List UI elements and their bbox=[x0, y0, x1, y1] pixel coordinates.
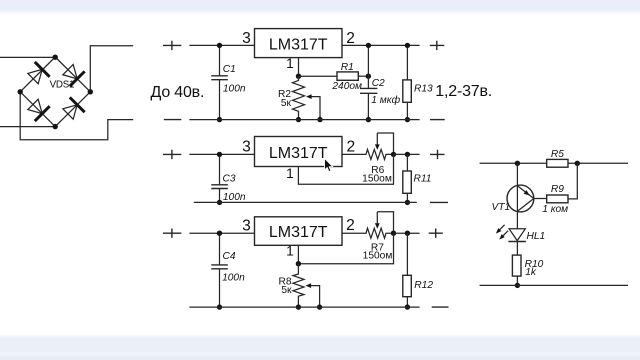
svg-text:3: 3 bbox=[242, 139, 251, 156]
minus terminal right 1 bbox=[430, 119, 445, 121]
plus terminal right 1 bbox=[430, 41, 445, 50]
node R12 top bbox=[405, 231, 410, 236]
svg-text:R1: R1 bbox=[341, 62, 354, 73]
wire bridge minus output bbox=[20, 92, 133, 140]
wire top rail right circuit bbox=[480, 162, 628, 164]
svg-text:VDS1: VDS1 bbox=[50, 80, 75, 91]
node R8 wiper bottom bbox=[317, 304, 322, 309]
svg-text:LM317T: LM317T bbox=[269, 224, 328, 241]
svg-text:LM317T: LM317T bbox=[269, 145, 328, 162]
wire pin1 circuit 3 bbox=[298, 233, 393, 264]
svg-text:R5: R5 bbox=[551, 149, 564, 160]
svg-text:LM317T: LM317T bbox=[269, 37, 328, 54]
wire top rail 3 left bbox=[189, 232, 254, 234]
wire pin1 to R1 bbox=[299, 75, 338, 77]
wire pin1 down circuit 1 bbox=[298, 58, 300, 77]
node R8 bottom bbox=[296, 304, 301, 309]
svg-text:R11: R11 bbox=[414, 174, 432, 185]
wire bridge edge left-top bbox=[20, 57, 55, 92]
wire bridge plus output bbox=[90, 46, 133, 92]
svg-text:C2: C2 bbox=[372, 78, 385, 89]
node C1 bottom bbox=[217, 117, 222, 122]
svg-text:VT1: VT1 bbox=[492, 202, 511, 213]
LED light arrow 2 bbox=[502, 231, 508, 237]
wire bottom rail 2 bbox=[194, 201, 417, 203]
svg-text:2: 2 bbox=[346, 217, 355, 234]
node C3 top bbox=[217, 152, 222, 157]
node bridge top bbox=[53, 55, 58, 60]
mouse cursor bbox=[325, 158, 333, 171]
svg-text:1 мкф: 1 мкф bbox=[371, 94, 400, 106]
svg-text:240ом: 240ом bbox=[331, 81, 362, 92]
node bridge left bbox=[18, 89, 23, 94]
svg-text:C3: C3 bbox=[223, 174, 236, 185]
svg-text:HL1: HL1 bbox=[527, 231, 546, 242]
diode VDS1.4 lower-right bbox=[61, 97, 85, 121]
wiper arrow R7 with frame bbox=[377, 212, 393, 234]
wiper arrow R8 bbox=[310, 286, 320, 308]
LED light arrow 1 bbox=[499, 225, 505, 231]
node pin1 circuit 3 bbox=[296, 261, 301, 266]
wire bottom rail 3 bbox=[189, 306, 419, 308]
node R13 top bbox=[405, 43, 410, 48]
node R7 out bbox=[391, 231, 396, 236]
plus terminal right 2 bbox=[430, 150, 445, 159]
LED HL1 cathode bar bbox=[508, 241, 526, 243]
node R11 bottom bbox=[405, 200, 410, 205]
wire base R9 bbox=[534, 198, 547, 200]
resistor R10 bbox=[512, 255, 521, 276]
node C1 top bbox=[217, 43, 222, 48]
svg-text:150ом: 150ом bbox=[362, 173, 392, 184]
svg-text:2: 2 bbox=[346, 30, 355, 47]
resistor R5 bbox=[547, 159, 568, 167]
transistor Q1 VT1 bbox=[507, 185, 534, 212]
svg-text:5к: 5к bbox=[281, 285, 292, 296]
capacitor C4 leads bbox=[219, 233, 221, 307]
bottom toolbar band bbox=[0, 334, 640, 360]
svg-text:1: 1 bbox=[286, 56, 294, 71]
transistor VT1 internals bbox=[517, 186, 533, 211]
plus terminal right 3 bbox=[429, 229, 443, 238]
wire R1 to node bbox=[358, 75, 368, 77]
plus terminal left 3 bbox=[163, 229, 181, 238]
minus terminal left 1 bbox=[164, 119, 182, 121]
plus terminal left 1 bbox=[163, 41, 181, 50]
top title bar bbox=[0, 0, 640, 15]
svg-text:1: 1 bbox=[286, 244, 294, 259]
diode VDS1.3 lower-left bbox=[26, 97, 50, 121]
wire R7 node to rail end bbox=[394, 232, 420, 234]
svg-text:C1: C1 bbox=[223, 64, 236, 75]
wire top rail 1 left bbox=[189, 44, 254, 46]
capacitor C3 leads bbox=[219, 154, 221, 202]
svg-text:C4: C4 bbox=[223, 251, 236, 262]
node bridge bottom bbox=[53, 124, 58, 129]
resistor R12 bbox=[403, 275, 412, 296]
resistor R7 potentiometer zigzag bbox=[342, 228, 394, 238]
node R10 bottom bbox=[515, 283, 520, 288]
node collector top bbox=[515, 161, 520, 166]
LED HL1 triangle bbox=[509, 229, 525, 241]
node pin1 circuit 1 bbox=[296, 74, 301, 79]
op-amp U2 regulator LM317T box 2 bbox=[255, 137, 343, 167]
node R1 right bbox=[366, 74, 371, 79]
wire output branch down to C2 bbox=[367, 45, 369, 88]
wire collector-emitter vertical bbox=[516, 163, 518, 229]
capacitor C3 plates bbox=[211, 185, 228, 189]
svg-text:3: 3 bbox=[242, 217, 251, 234]
wire pin1 circuit 2 bbox=[298, 154, 393, 184]
resistor R6 potentiometer zigzag bbox=[342, 149, 394, 159]
minus terminal right 2 bbox=[430, 201, 448, 203]
node bridge right bbox=[88, 89, 93, 94]
wire bottom rail right circuit bbox=[480, 284, 628, 286]
node R11 top bbox=[405, 152, 410, 157]
wiper arrow R2 bbox=[311, 97, 321, 120]
svg-text:R9: R9 bbox=[551, 184, 564, 195]
op-amp U1 regulator LM317T box 1 bbox=[255, 29, 343, 58]
resistor R13 bbox=[403, 80, 412, 102]
wire R9 branch bbox=[568, 163, 577, 199]
node R6 out bbox=[391, 152, 396, 157]
svg-text:100n: 100n bbox=[223, 84, 246, 95]
svg-text:1k: 1k bbox=[525, 267, 537, 278]
wire top rail 1 right bbox=[342, 44, 420, 46]
node output rail C2 bbox=[366, 43, 371, 48]
wire bridge edge left-bottom bbox=[20, 92, 55, 127]
node C4 bottom bbox=[217, 304, 222, 309]
node R2 bottom bbox=[296, 117, 301, 122]
wire LED to R10 bbox=[516, 242, 518, 256]
svg-text:3: 3 bbox=[242, 30, 251, 47]
svg-text:1,2-37в.: 1,2-37в. bbox=[435, 83, 492, 100]
svg-text:1: 1 bbox=[286, 166, 294, 181]
svg-text:1 ком: 1 ком bbox=[542, 204, 568, 215]
wire top rail 2 left bbox=[189, 153, 254, 155]
wire R6 node to R11 node bbox=[394, 153, 420, 155]
resistor R9 bbox=[547, 195, 568, 203]
svg-text:2: 2 bbox=[347, 138, 356, 155]
diode VDS1.2 upper-right bbox=[61, 62, 85, 86]
wire bridge edge top-right bbox=[55, 57, 90, 92]
node R5 right bbox=[575, 161, 580, 166]
wire R10 to bottom rail bbox=[516, 276, 518, 285]
capacitor C1 leads bbox=[219, 45, 221, 119]
svg-text:5к: 5к bbox=[281, 98, 292, 109]
svg-text:R12: R12 bbox=[414, 280, 433, 291]
node C3 bottom bbox=[217, 200, 222, 205]
op-amp U3 regulator LM317T box 3 bbox=[255, 217, 343, 246]
wire bridge edge bottom-right bbox=[55, 92, 90, 127]
minus terminal right 3 bbox=[432, 306, 449, 308]
node C2 bottom bbox=[366, 117, 371, 122]
svg-text:До 40в.: До 40в. bbox=[151, 84, 205, 101]
resistor R11 bbox=[403, 171, 412, 193]
resistor R11 leads bbox=[406, 154, 408, 202]
node R12 bottom bbox=[405, 304, 410, 309]
wire AC input bottom bbox=[0, 126, 55, 128]
capacitor C1 plates bbox=[211, 76, 228, 80]
capacitor C4 plates bbox=[211, 265, 228, 269]
node R13 bottom bbox=[405, 117, 410, 122]
resistor R8 potentiometer zigzag bbox=[293, 264, 304, 307]
svg-text:100n: 100n bbox=[223, 192, 246, 203]
diode VDS1.1 upper-left bbox=[26, 62, 50, 86]
wire AC input top bbox=[0, 56, 55, 58]
svg-text:R13: R13 bbox=[414, 84, 433, 95]
wiper arrow R6 with frame bbox=[377, 133, 393, 154]
svg-text:150ом: 150ом bbox=[363, 250, 393, 261]
svg-text:100n: 100n bbox=[222, 273, 245, 284]
wire bottom rail 1 bbox=[189, 119, 419, 121]
plus terminal left 2 bbox=[163, 150, 181, 159]
resistor R2 potentiometer zigzag bbox=[293, 76, 305, 119]
node C4 top bbox=[217, 231, 222, 236]
resistor R12 leads bbox=[406, 233, 408, 307]
node R2 wiper bottom bbox=[317, 117, 322, 122]
capacitor C2 plates bbox=[360, 88, 377, 93]
wire C2 to bottom rail bbox=[367, 93, 369, 119]
resistor R13 leads bbox=[406, 45, 408, 119]
resistor R1 bbox=[337, 72, 358, 80]
